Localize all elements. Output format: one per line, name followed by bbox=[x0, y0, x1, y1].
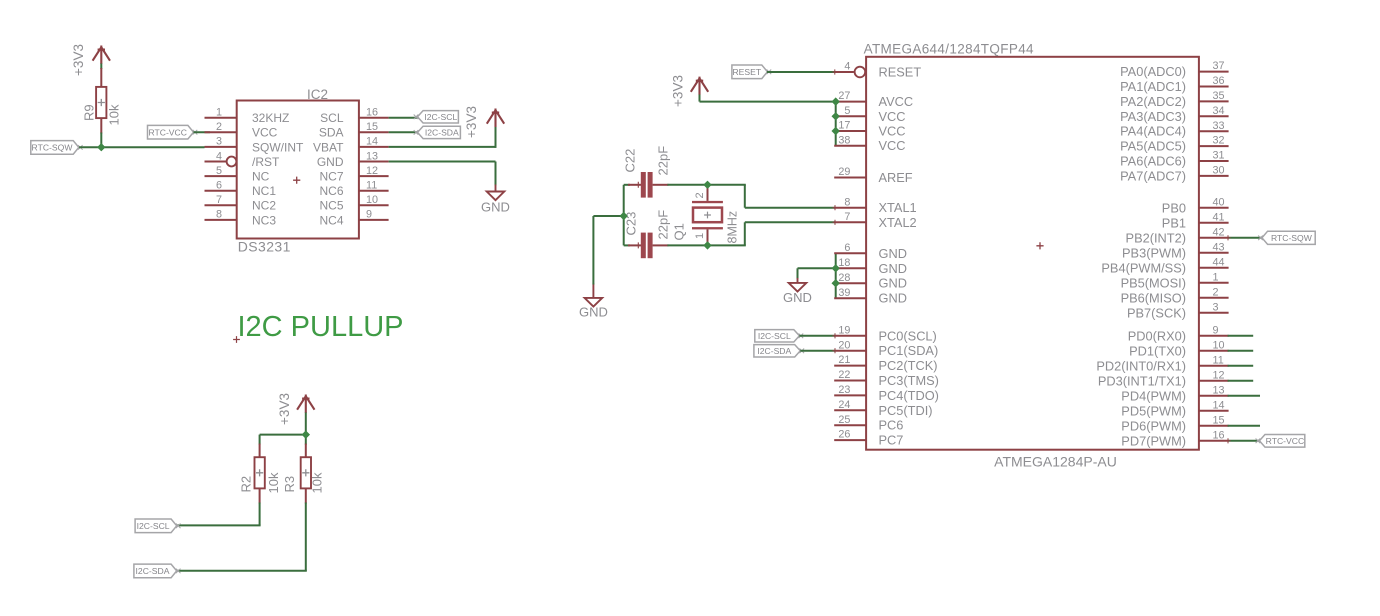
svg-text:16: 16 bbox=[1213, 429, 1225, 441]
svg-text:10k: 10k bbox=[107, 104, 122, 125]
ATMEGA pin 4 RESET bbox=[835, 61, 922, 80]
svg-text:2: 2 bbox=[1213, 286, 1219, 298]
svg-text:NC2: NC2 bbox=[252, 199, 276, 213]
ATMEGA pin 31 PA6(ADC6) bbox=[1120, 150, 1229, 169]
svg-text:GND: GND bbox=[879, 246, 907, 261]
junction XTAL1 node bbox=[703, 181, 711, 189]
svg-text:PD0(RX0): PD0(RX0) bbox=[1128, 328, 1186, 343]
svg-text:34: 34 bbox=[1213, 105, 1225, 117]
svg-text:16: 16 bbox=[366, 107, 378, 119]
ATMEGA pin 39 GND bbox=[834, 287, 907, 306]
svg-text:8: 8 bbox=[216, 209, 222, 221]
crystal Q1 8MHz bbox=[672, 186, 740, 245]
svg-text:NC7: NC7 bbox=[319, 170, 343, 184]
ATMEGA pin 38 VCC bbox=[834, 134, 905, 153]
capacitor C22 22pF bbox=[623, 146, 671, 198]
svg-text:32: 32 bbox=[1213, 135, 1225, 147]
svg-text:PD6(PWM): PD6(PWM) bbox=[1121, 418, 1186, 433]
wire GND symbol drop bbox=[797, 268, 799, 279]
IC2 pin 6 NC1 bbox=[205, 180, 277, 199]
svg-text:8: 8 bbox=[844, 196, 850, 208]
svg-text:39: 39 bbox=[838, 287, 850, 299]
svg-text:37: 37 bbox=[1213, 60, 1225, 72]
svg-text:PB1: PB1 bbox=[1162, 215, 1186, 230]
svg-text:VCC: VCC bbox=[879, 124, 906, 139]
svg-text:PC3(TMS): PC3(TMS) bbox=[879, 373, 939, 388]
junction XTAL2 node bbox=[703, 241, 711, 249]
svg-text:I2C-SDA: I2C-SDA bbox=[757, 346, 791, 356]
net label RTC-VCC (ATMEGA) bbox=[1256, 435, 1305, 448]
svg-text:42: 42 bbox=[1213, 226, 1225, 238]
ATMEGA pin 25 PC6 bbox=[834, 414, 903, 433]
ATMEGA pin 30 PA7(ADC7) bbox=[1120, 165, 1229, 184]
wire IC2 SCL to I2C-SCL bbox=[389, 117, 421, 119]
svg-text:23: 23 bbox=[838, 384, 850, 396]
ATMEGA pin 1 PB5(MOSI) bbox=[1121, 271, 1229, 290]
svg-text:17: 17 bbox=[838, 120, 850, 132]
svg-text:36: 36 bbox=[1213, 75, 1225, 87]
wire stub pin 13 bbox=[1228, 395, 1260, 397]
svg-text:PB3(PWM): PB3(PWM) bbox=[1122, 245, 1186, 260]
svg-text:GND: GND bbox=[481, 200, 510, 215]
ATMEGA pin 23 PC4(TDO) bbox=[834, 384, 939, 403]
ATMEGA pin 16 PD7(PWM) bbox=[1121, 429, 1228, 448]
svg-text:10: 10 bbox=[1213, 339, 1225, 351]
svg-text:PA6(ADC6): PA6(ADC6) bbox=[1120, 154, 1186, 169]
ATMEGA pin 12 PD3(INT1/TX1) bbox=[1098, 369, 1229, 388]
wire XTAL2 bbox=[744, 222, 746, 245]
svg-text:ATMEGA644/1284TQFP44: ATMEGA644/1284TQFP44 bbox=[864, 42, 1034, 57]
svg-text:PB0: PB0 bbox=[1162, 200, 1186, 215]
svg-text:22pF: 22pF bbox=[656, 210, 671, 240]
svg-text:VBAT: VBAT bbox=[313, 140, 344, 154]
svg-text:5: 5 bbox=[216, 165, 222, 177]
svg-text:11: 11 bbox=[1213, 354, 1224, 366]
wire stub pin 15 bbox=[1228, 425, 1260, 427]
net label I2C-SDA (pullup) bbox=[134, 564, 181, 578]
ground GND (IC2) bbox=[481, 185, 510, 215]
wire PB2 to RTC-SQW bbox=[1228, 237, 1262, 239]
wire +3V3 to R9 bbox=[100, 64, 102, 70]
ATMEGA pin 42 PB2(INT2) bbox=[1126, 226, 1229, 245]
wire junction to R2 bbox=[260, 434, 307, 436]
svg-text:PA4(ADC4): PA4(ADC4) bbox=[1120, 124, 1186, 139]
svg-text:22pF: 22pF bbox=[656, 146, 671, 176]
svg-text:41: 41 bbox=[1213, 211, 1225, 223]
junction GND pin 28 bbox=[832, 279, 840, 287]
ATMEGA pin 26 PC7 bbox=[834, 429, 903, 448]
wire XTAL1 bbox=[744, 185, 746, 208]
IC2 pin 15 SDA bbox=[319, 121, 389, 140]
wire RESET to pin 4 bbox=[767, 71, 836, 73]
ATMEGA pin 40 PB0 bbox=[1162, 196, 1229, 215]
svg-text:RTC-VCC: RTC-VCC bbox=[1266, 436, 1305, 446]
svg-text:PD4(PWM): PD4(PWM) bbox=[1121, 388, 1186, 403]
wire IC2 GND to ground bbox=[389, 161, 496, 163]
svg-text:ATMEGA1284P-AU: ATMEGA1284P-AU bbox=[994, 454, 1117, 470]
svg-text:31: 31 bbox=[1213, 150, 1225, 162]
svg-text:PB5(MOSI): PB5(MOSI) bbox=[1121, 275, 1186, 290]
wire IC2 SDA to I2C-SDA bbox=[389, 131, 421, 133]
svg-text:NC: NC bbox=[252, 170, 270, 184]
svg-text:DS3231: DS3231 bbox=[238, 239, 291, 255]
wire RTC-SQW to IC2 pin 3 bbox=[79, 146, 204, 148]
svg-text:GND: GND bbox=[879, 291, 907, 306]
svg-text:PA0(ADC0): PA0(ADC0) bbox=[1120, 64, 1186, 79]
wire I2C-SCL to PC0 bbox=[799, 335, 835, 337]
svg-text:40: 40 bbox=[1213, 196, 1225, 208]
IC2 pin 14 VBAT bbox=[313, 136, 389, 155]
svg-text:2: 2 bbox=[694, 192, 706, 198]
svg-text:R9: R9 bbox=[82, 104, 97, 121]
junction overlay marks bbox=[97, 97, 840, 438]
svg-text:GND: GND bbox=[317, 155, 344, 169]
ATMEGA pin 8 XTAL1 bbox=[834, 196, 916, 215]
net label I2C-SDA (ATMEGA) bbox=[754, 345, 804, 357]
power +3V3 (above R9) bbox=[71, 44, 110, 76]
svg-text:9: 9 bbox=[366, 209, 372, 221]
svg-text:NC3: NC3 bbox=[252, 213, 276, 227]
wire I2C-SDA to PC1 bbox=[800, 350, 835, 352]
svg-text:R3: R3 bbox=[282, 476, 297, 493]
svg-text:PD2(INT0/RX1): PD2(INT0/RX1) bbox=[1096, 358, 1186, 373]
svg-text:7: 7 bbox=[216, 194, 222, 206]
svg-text:NC5: NC5 bbox=[319, 199, 343, 213]
IC2 pin 4 /RST bbox=[205, 150, 281, 169]
svg-text:20: 20 bbox=[838, 339, 850, 351]
junction AVCC bbox=[832, 97, 840, 105]
junction VCC pin 17 bbox=[832, 127, 840, 135]
svg-text:33: 33 bbox=[1213, 120, 1225, 132]
wire stub pin 9 bbox=[1228, 335, 1254, 337]
net label I2C-SDA bbox=[414, 126, 461, 138]
ground GND (crystal caps) bbox=[579, 284, 608, 320]
power +3V3 (AVCC) bbox=[671, 75, 709, 107]
ATMEGA pin 36 PA1(ADC1) bbox=[1120, 75, 1229, 94]
svg-text:10: 10 bbox=[366, 194, 378, 206]
svg-text:PB4(PWM/SS): PB4(PWM/SS) bbox=[1101, 260, 1186, 275]
svg-text:GND: GND bbox=[579, 305, 608, 320]
ATMEGA pin 35 PA2(ADC2) bbox=[1120, 90, 1229, 109]
wire R3 to I2C-SDA bbox=[305, 503, 307, 571]
svg-text:13: 13 bbox=[366, 150, 378, 162]
svg-text:18: 18 bbox=[838, 257, 850, 269]
junction pullup supply bbox=[302, 430, 310, 438]
IC2 pin 7 NC2 bbox=[205, 194, 277, 213]
net label I2C-SCL (ATMEGA) bbox=[755, 330, 803, 342]
ATMEGA pin 43 PB3(PWM) bbox=[1122, 241, 1229, 260]
svg-text:RESET: RESET bbox=[732, 67, 761, 77]
svg-text:PD1(TX0): PD1(TX0) bbox=[1129, 343, 1186, 358]
wire +3V3 down to junction bbox=[305, 413, 307, 435]
svg-text:PA3(ADC3): PA3(ADC3) bbox=[1120, 109, 1186, 124]
resistor R9 10k bbox=[82, 68, 122, 134]
svg-text:28: 28 bbox=[838, 272, 850, 284]
ATMEGA pin 10 PD1(TX0) bbox=[1129, 339, 1228, 358]
svg-text:PD3(INT1/TX1): PD3(INT1/TX1) bbox=[1098, 373, 1186, 388]
svg-text:4: 4 bbox=[216, 150, 222, 162]
svg-text:PC7: PC7 bbox=[879, 433, 904, 448]
capacitor C23 22pF bbox=[624, 210, 671, 258]
svg-text:+3V3: +3V3 bbox=[277, 393, 292, 425]
svg-text:30: 30 bbox=[1213, 165, 1225, 177]
ATMEGA pin 29 AREF bbox=[834, 166, 913, 185]
svg-text:15: 15 bbox=[1213, 414, 1225, 426]
svg-text:NC4: NC4 bbox=[319, 213, 343, 227]
ATMEGA pin 14 PD5(PWM) bbox=[1121, 399, 1228, 418]
IC2 pin 3 SQW/INT bbox=[205, 136, 304, 155]
svg-text:R2: R2 bbox=[239, 476, 254, 493]
svg-text:2: 2 bbox=[216, 121, 222, 133]
svg-text:PC2(TCK): PC2(TCK) bbox=[879, 358, 938, 373]
node I2C PULLUP title bbox=[233, 311, 403, 343]
wire ground riser bbox=[592, 216, 594, 285]
ATMEGA pin 9 PD0(RX0) bbox=[1128, 324, 1229, 343]
ATMEGA pin 7 XTAL2 bbox=[834, 211, 916, 230]
net label I2C-SCL bbox=[414, 111, 459, 123]
wire stub pin 12 bbox=[1228, 380, 1254, 382]
svg-text:I2C-SDA: I2C-SDA bbox=[136, 566, 170, 576]
wire stub pin 10 bbox=[1228, 350, 1254, 352]
svg-text:RTC-SQW: RTC-SQW bbox=[32, 143, 74, 153]
svg-text:43: 43 bbox=[1213, 241, 1225, 253]
op-amp U1 IC2 DS3231 body bbox=[237, 87, 359, 255]
junction GND pin 18 bbox=[832, 264, 840, 272]
svg-text:GND: GND bbox=[879, 276, 907, 291]
svg-text:11: 11 bbox=[366, 180, 377, 192]
svg-text:26: 26 bbox=[838, 429, 850, 441]
ATMEGA pin 44 PB4(PWM/SS) bbox=[1101, 256, 1228, 275]
IC2 pin 2 VCC bbox=[205, 121, 278, 140]
resistor R3 10k bbox=[282, 444, 325, 504]
svg-text:GND: GND bbox=[879, 261, 907, 276]
ATMEGA pin 19 PC0(SCL) bbox=[834, 324, 937, 343]
svg-text:NC6: NC6 bbox=[319, 184, 343, 198]
junction cap rail bbox=[620, 212, 628, 220]
svg-text:GND: GND bbox=[783, 290, 812, 305]
ATMEGA pin 27 AVCC bbox=[834, 90, 913, 109]
IC2 pin 12 NC7 bbox=[319, 165, 388, 184]
wire cap left rail bbox=[623, 185, 625, 246]
svg-text:5: 5 bbox=[844, 105, 850, 117]
power +3V3 (pullups) bbox=[277, 393, 315, 425]
svg-text:13: 13 bbox=[1213, 384, 1225, 396]
svg-text:9: 9 bbox=[1213, 324, 1219, 336]
svg-text:PA1(ADC1): PA1(ADC1) bbox=[1120, 79, 1186, 94]
svg-text:15: 15 bbox=[366, 121, 378, 133]
svg-text:38: 38 bbox=[838, 134, 850, 146]
ground GND (ATMEGA) bbox=[783, 278, 812, 305]
svg-text:PB2(INT2): PB2(INT2) bbox=[1126, 230, 1186, 245]
svg-text:29: 29 bbox=[838, 166, 850, 178]
net label RTC-SQW (ATMEGA) bbox=[1258, 231, 1315, 244]
ATMEGA pin 22 PC3(TMS) bbox=[834, 369, 939, 388]
svg-text:IC2: IC2 bbox=[307, 87, 328, 102]
svg-text:SCL: SCL bbox=[320, 111, 344, 125]
svg-text:I2C-SCL: I2C-SCL bbox=[758, 331, 791, 341]
ATMEGA pin 41 PB1 bbox=[1162, 211, 1229, 230]
svg-text:PC4(TDO): PC4(TDO) bbox=[879, 388, 939, 403]
wire R9 to RTC-SQW net bbox=[100, 133, 102, 148]
net label RTC-VCC bbox=[148, 125, 198, 139]
ATMEGA pin 2 PB6(MISO) bbox=[1121, 286, 1229, 305]
svg-text:44: 44 bbox=[1213, 256, 1225, 268]
ATMEGA pin 13 PD4(PWM) bbox=[1121, 384, 1228, 403]
junction RTC-SQW / R9 bbox=[97, 143, 105, 151]
svg-text:XTAL2: XTAL2 bbox=[879, 215, 917, 230]
ATMEGA pin 17 VCC bbox=[834, 120, 905, 139]
svg-text:PA7(ADC7): PA7(ADC7) bbox=[1120, 168, 1186, 183]
ATMEGA pin 15 PD6(PWM) bbox=[1121, 414, 1228, 433]
wire +3V3 to R3 bbox=[305, 435, 307, 445]
IC2 pin 11 NC6 bbox=[319, 180, 388, 199]
svg-text:PC6: PC6 bbox=[879, 418, 904, 433]
svg-text:VCC: VCC bbox=[879, 138, 906, 153]
junction VCC pin 5 bbox=[832, 112, 840, 120]
svg-text:PB6(MISO): PB6(MISO) bbox=[1121, 290, 1186, 305]
ATMEGA pin 28 GND bbox=[834, 272, 907, 291]
ATMEGA pin 3 PB7(SCK) bbox=[1127, 301, 1229, 320]
svg-text:27: 27 bbox=[838, 90, 850, 102]
IC2 pin 5 NC bbox=[205, 165, 270, 184]
svg-text:+3V3: +3V3 bbox=[464, 106, 479, 138]
ATMEGA pin 34 PA3(ADC3) bbox=[1120, 105, 1229, 124]
svg-text:SDA: SDA bbox=[319, 126, 344, 140]
wire R2 to I2C-SCL bbox=[259, 503, 261, 526]
svg-text:1: 1 bbox=[1213, 271, 1219, 283]
svg-text:XTAL1: XTAL1 bbox=[879, 200, 917, 215]
ATMEGA pin 24 PC5(TDI) bbox=[834, 399, 932, 418]
ATMEGA pin 5 VCC bbox=[834, 105, 905, 124]
svg-text:VCC: VCC bbox=[252, 126, 278, 140]
ATMEGA pin 20 PC1(SDA) bbox=[834, 339, 938, 358]
svg-text:4: 4 bbox=[844, 61, 850, 73]
IC2 pin 1 32KHZ bbox=[205, 107, 290, 126]
svg-text:NC1: NC1 bbox=[252, 184, 276, 198]
svg-text:I2C PULLUP: I2C PULLUP bbox=[238, 311, 404, 343]
svg-text:PC1(SDA): PC1(SDA) bbox=[879, 343, 939, 358]
IC2 pin 10 NC5 bbox=[319, 194, 388, 213]
svg-text:+3V3: +3V3 bbox=[671, 75, 686, 107]
wire +3V3 to AVCC bbox=[699, 95, 701, 102]
ATMEGA pin 33 PA4(ADC4) bbox=[1120, 120, 1229, 139]
resistor R2 10k bbox=[239, 444, 281, 504]
wire C22 to crystal node bbox=[667, 184, 745, 186]
svg-text:32KHZ: 32KHZ bbox=[252, 111, 289, 125]
svg-text:PA2(ADC2): PA2(ADC2) bbox=[1120, 94, 1186, 109]
svg-text:RTC-SQW: RTC-SQW bbox=[1271, 233, 1313, 243]
svg-text:PA5(ADC5): PA5(ADC5) bbox=[1120, 139, 1186, 154]
svg-text:6: 6 bbox=[216, 180, 222, 192]
svg-text:3: 3 bbox=[216, 136, 222, 148]
ATMEGA pin 37 PA0(ADC0) bbox=[1120, 60, 1229, 79]
svg-text:PB7(SCK): PB7(SCK) bbox=[1127, 305, 1186, 320]
svg-text:3: 3 bbox=[1213, 301, 1219, 313]
svg-text:SQW/INT: SQW/INT bbox=[252, 140, 304, 154]
svg-text:19: 19 bbox=[838, 324, 850, 336]
svg-text:10k: 10k bbox=[310, 472, 325, 493]
svg-text:14: 14 bbox=[1213, 399, 1225, 411]
wire stub pin 11 bbox=[1228, 365, 1254, 367]
op-amp U2 ATMEGA644/1284TQFP44 body bbox=[864, 42, 1199, 470]
svg-text:12: 12 bbox=[366, 165, 378, 177]
svg-text:35: 35 bbox=[1213, 90, 1225, 102]
net label RTC-SQW bbox=[31, 141, 83, 155]
svg-text:10k: 10k bbox=[266, 472, 281, 493]
svg-text:AVCC: AVCC bbox=[879, 94, 914, 109]
ATMEGA pin 11 PD2(INT0/RX1) bbox=[1096, 354, 1228, 373]
wire VCC riser bbox=[835, 102, 837, 146]
svg-text:AREF: AREF bbox=[879, 170, 913, 185]
svg-text:PC0(SCL): PC0(SCL) bbox=[879, 328, 937, 343]
wire C23 to crystal node bbox=[667, 244, 745, 246]
svg-text:PC5(TDI): PC5(TDI) bbox=[879, 403, 933, 418]
net label RESET bbox=[732, 65, 771, 79]
svg-text:PD7(PWM): PD7(PWM) bbox=[1121, 433, 1186, 448]
wire RTC-VCC to IC2 pin 2 bbox=[194, 131, 211, 133]
IC2 pin 16 SCL bbox=[320, 107, 388, 126]
wire GND riser bbox=[835, 253, 837, 298]
svg-text:I2C-SCL: I2C-SCL bbox=[137, 521, 170, 531]
ATMEGA pin 32 PA5(ADC5) bbox=[1120, 135, 1229, 154]
svg-text:1: 1 bbox=[216, 107, 222, 119]
svg-text:RTC-VCC: RTC-VCC bbox=[148, 127, 187, 137]
svg-text:21: 21 bbox=[838, 354, 850, 366]
ATMEGA pin 6 GND bbox=[834, 242, 907, 261]
node pin origin marks bbox=[832, 69, 1230, 443]
IC2 pin 8 NC3 bbox=[205, 209, 277, 228]
svg-text:PD5(PWM): PD5(PWM) bbox=[1121, 403, 1186, 418]
svg-text:VCC: VCC bbox=[879, 109, 906, 124]
svg-text:6: 6 bbox=[844, 242, 850, 254]
svg-text:+3V3: +3V3 bbox=[71, 44, 86, 76]
IC2 pin 13 GND bbox=[317, 150, 389, 169]
svg-text:I2C-SCL: I2C-SCL bbox=[424, 112, 457, 122]
power +3V3 (IC2 VBAT) bbox=[464, 106, 504, 138]
svg-text:RESET: RESET bbox=[879, 65, 922, 80]
svg-text:14: 14 bbox=[366, 136, 378, 148]
ATMEGA pin 18 GND bbox=[834, 257, 907, 276]
svg-text:C22: C22 bbox=[623, 149, 638, 173]
svg-text:12: 12 bbox=[1213, 369, 1225, 381]
wire PD7 to RTC-VCC bbox=[1228, 440, 1260, 442]
svg-text:1: 1 bbox=[694, 233, 706, 239]
net label I2C-SCL (pullup) bbox=[135, 519, 180, 533]
svg-text:Q1: Q1 bbox=[672, 223, 687, 240]
svg-text:24: 24 bbox=[838, 399, 850, 411]
svg-text:I2C-SDA: I2C-SDA bbox=[425, 128, 459, 138]
svg-text:22: 22 bbox=[838, 369, 850, 381]
wire VBAT to +3V3 bbox=[389, 146, 496, 148]
svg-text:8MHz: 8MHz bbox=[725, 211, 739, 244]
IC2 pin 9 NC4 bbox=[319, 209, 388, 228]
svg-text:7: 7 bbox=[844, 211, 850, 223]
ATMEGA pin 21 PC2(TCK) bbox=[834, 354, 937, 373]
svg-text:25: 25 bbox=[838, 414, 850, 426]
svg-text:/RST: /RST bbox=[252, 155, 280, 169]
